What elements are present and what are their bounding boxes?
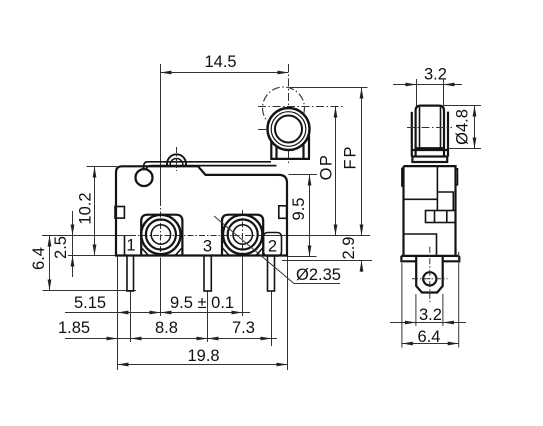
moulding line left of tower 1: [124, 236, 126, 256]
side latch tab strip: [426, 211, 456, 223]
svg-text:7.3: 7.3: [232, 319, 255, 337]
svg-text:14.5: 14.5: [205, 53, 237, 71]
svg-text:Ø2.35: Ø2.35: [296, 266, 341, 284]
free-position roller horizontal centerline / OP extension: [258, 106, 344, 108]
side dim 6.4 line: [402, 343, 459, 345]
side dim 3.2 bottom line: [390, 322, 466, 324]
svg-text:6.4: 6.4: [30, 247, 48, 270]
side dim 3.2 bottom extensions: [415, 294, 417, 326]
side body left lip: [402, 169, 404, 187]
dim 2.9 arrow line: [361, 261, 363, 273]
hole 1 vertical centerline / 14.5 extension: [160, 64, 162, 200]
roller vertical centerline / 14.5 extension: [288, 64, 290, 163]
svg-text:1.85: 1.85: [58, 319, 90, 337]
switch body outline: [116, 166, 287, 255]
svg-text:6.4: 6.4: [418, 328, 441, 346]
dim 9.5 right arrows: [308, 175, 312, 186]
side lever strip: [412, 157, 447, 163]
side dim 6.4 arrows: [402, 342, 413, 346]
svg-text:FP: FP: [342, 144, 360, 169]
side dim 3.2 bottom arrows: [405, 321, 416, 325]
side dim 3.2 top line: [393, 84, 462, 86]
svg-text:2.5: 2.5: [52, 236, 70, 259]
dim 9.5±0.1 arrows: [161, 311, 172, 315]
dim 10.2 line: [94, 167, 96, 256]
dim OP line: [335, 107, 337, 236]
2.9 bottom extension line: [282, 260, 372, 262]
dim Ø4.8 arrows: [473, 106, 477, 117]
side terminal lug: [416, 257, 443, 293]
side roller bottom flange: [412, 149, 448, 151]
side roller barrel: [416, 106, 444, 149]
body right edge extension: [287, 256, 289, 370]
dim Ø4.8 extensions: [444, 105, 481, 107]
contact 1 middle circle: [146, 220, 176, 250]
dim row line 1.85 / 8.8 / 7.3: [65, 338, 277, 340]
plunger centerline: [176, 147, 178, 171]
right side notch: [279, 206, 287, 219]
dim 7.3 arrows: [208, 337, 219, 341]
roller hub circle: [275, 116, 302, 143]
roller horizontal centerline: [258, 129, 312, 131]
contact 2 inner circle: [233, 225, 252, 244]
side roller centerline: [407, 127, 452, 129]
contact 1 inner circle: [151, 225, 170, 244]
dim row line 5.15 / 9.5±0.1: [65, 312, 250, 314]
svg-text:OP: OP: [318, 154, 336, 181]
dim 1.85 arrows: [107, 337, 118, 341]
dim FP arrows: [360, 88, 364, 99]
side body right lip: [456, 169, 458, 185]
leader line Ø2.35: [214, 216, 340, 284]
svg-text:10.2: 10.2: [77, 192, 95, 224]
side roller face lines: [420, 107, 441, 148]
side lug horizontal centerline: [412, 278, 448, 280]
pin 2 center extension: [271, 291, 273, 346]
side lug vertical centerline: [429, 247, 431, 302]
dim 19.8 line: [118, 364, 288, 366]
dim 5.15 arrows: [118, 311, 129, 315]
svg-text:9.5: 9.5: [290, 198, 308, 221]
contact 1 outer circle: [141, 215, 180, 254]
lever curl neck: [144, 162, 153, 169]
contact tower 2: [222, 215, 263, 256]
pin 3: [204, 256, 211, 292]
body top-left extension line: [87, 166, 118, 168]
side body outline: [404, 166, 456, 256]
body bottom-left extension line: [68, 255, 116, 257]
moulding pocket around terminal 2: [264, 233, 282, 257]
roller rim circle: [271, 112, 306, 147]
svg-text:9.5 ± 0.1: 9.5 ± 0.1: [170, 294, 234, 312]
roller free-position phantom circle: [263, 87, 305, 129]
svg-text:2.9: 2.9: [340, 237, 358, 260]
lever hinge curl: [136, 169, 153, 186]
svg-text:3: 3: [203, 238, 212, 256]
9.5 right top extension line: [289, 174, 318, 176]
left side notch: [115, 207, 124, 219]
svg-text:Ø4.8: Ø4.8: [454, 109, 472, 145]
side dim 3.2 top arrows: [406, 83, 417, 87]
contact tower 1: [141, 215, 182, 256]
side internal line: [404, 198, 438, 200]
dim Ø4.8 line: [474, 106, 476, 149]
roller bracket: [271, 130, 309, 159]
hole centerline horizontal: [42, 235, 130, 237]
svg-text:1: 1: [126, 237, 135, 255]
dim 2.9 arrow: [360, 261, 364, 272]
svg-text:19.8: 19.8: [188, 347, 220, 365]
side internal step: [437, 166, 453, 210]
side bottom band: [401, 256, 459, 261]
pin 3 center extension: [207, 291, 209, 342]
body left edge extension: [117, 256, 119, 370]
dim FP line: [361, 88, 363, 236]
dim 14.5 arrows: [161, 71, 172, 75]
svg-text:2: 2: [268, 238, 277, 256]
dim 10.2 arrows: [93, 167, 97, 178]
side dim 6.4 extensions: [401, 263, 403, 348]
dim 8.8 arrows: [197, 337, 208, 341]
side dim 3.2 top extensions: [416, 79, 418, 106]
roller outer circle: [268, 108, 310, 150]
side lower panel: [404, 234, 437, 256]
hole 2 vertical centerline: [242, 210, 244, 262]
contact 2 outer circle: [223, 215, 262, 254]
plunger dome outer arc: [167, 154, 186, 165]
contact 2 middle circle: [228, 220, 258, 250]
9.5 right bottom extension line: [287, 256, 317, 258]
dim 2.5 line: [72, 211, 74, 277]
dim 19.8 arrows: [118, 363, 129, 367]
pin 2: [268, 256, 275, 292]
dim 2.5 arrows: [71, 225, 75, 236]
plunger dome inner arc: [170, 158, 183, 165]
tower 2 chamfers: [222, 248, 263, 256]
dim 6.4 left arrows: [48, 236, 52, 247]
pin 1: [127, 256, 134, 292]
side lug hole: [423, 272, 436, 285]
lever strip: [147, 162, 277, 166]
FP top extension line: [289, 87, 368, 89]
dim 9.5 right line: [309, 175, 311, 257]
pin 1 center extension: [130, 291, 132, 342]
svg-text:3.2: 3.2: [419, 306, 442, 324]
tower 1 chamfers: [141, 248, 182, 256]
dim 14.5 line: [161, 72, 289, 74]
svg-text:5.15: 5.15: [74, 294, 106, 312]
pin bottom extension line: [43, 290, 137, 292]
svg-text:8.8: 8.8: [155, 319, 178, 337]
dim OP arrows: [334, 107, 338, 118]
dim 6.4 left line: [49, 236, 51, 291]
side fork arms: [412, 112, 448, 157]
